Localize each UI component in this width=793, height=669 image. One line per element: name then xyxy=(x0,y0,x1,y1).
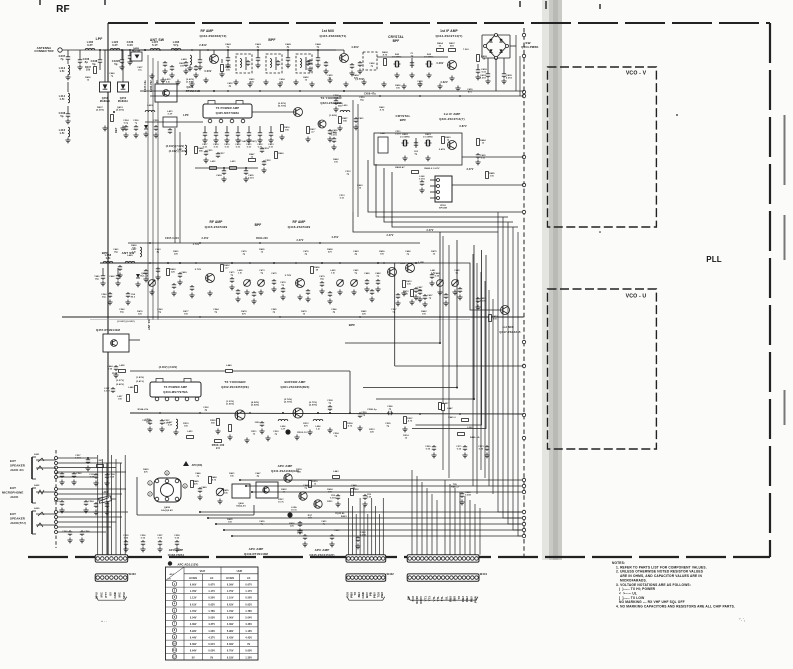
svg-text:MICROPHONE: MICROPHONE xyxy=(2,491,23,495)
svg-text:PB8: PB8 xyxy=(448,596,452,602)
filler label M23 xyxy=(421,310,427,315)
junction mid rail xyxy=(167,262,417,264)
svg-text:PTT: PTT xyxy=(104,592,108,598)
junction dot J13 xyxy=(195,262,197,264)
svg-text:0.5t: 0.5t xyxy=(166,80,170,83)
svg-text:220: 220 xyxy=(138,313,143,315)
svg-text:MIC: MIC xyxy=(118,592,122,597)
svg-text:330: 330 xyxy=(407,283,412,285)
svg-text:C445: C445 xyxy=(285,43,291,46)
svg-text:0.62V: 0.62V xyxy=(227,604,234,606)
page edge mark xyxy=(784,390,786,425)
svg-text:5B8: 5B8 xyxy=(453,596,457,602)
resistor R409 xyxy=(477,55,488,62)
supply rail mid xyxy=(128,242,420,244)
junction dot J22 xyxy=(159,412,161,414)
svg-text:0.43V: 0.43V xyxy=(227,636,234,639)
transistor Q412 xyxy=(182,43,219,64)
svg-text:4.39V: 4.39V xyxy=(227,623,234,626)
jack pads xyxy=(55,457,58,534)
svg-text:4.39V: 4.39V xyxy=(190,623,197,626)
label TX YOUNGER xyxy=(320,96,342,105)
svg-text:1k: 1k xyxy=(359,187,362,189)
junction xyxy=(227,49,229,51)
junction dot J14 xyxy=(249,262,251,264)
filler label M4 xyxy=(241,250,247,255)
inductor L406 xyxy=(85,40,95,50)
svg-text:5p: 5p xyxy=(393,311,396,313)
svg-text:1k: 1k xyxy=(251,156,254,158)
junction dot J6 xyxy=(259,90,261,92)
filler label T11 xyxy=(369,62,375,67)
filler label A10 xyxy=(289,522,295,527)
svg-text:C405: C405 xyxy=(506,74,512,77)
filler label T1 xyxy=(109,72,115,77)
junction dot J31 xyxy=(439,316,441,318)
svg-text:TX YOUNGER: TX YOUNGER xyxy=(224,380,246,384)
filler label M13 xyxy=(137,310,143,315)
capacitor C482 xyxy=(375,272,381,292)
junction xyxy=(329,412,331,414)
svg-text:PB2: PB2 xyxy=(465,596,469,602)
filler label A4 xyxy=(281,488,287,493)
capacitor C475 xyxy=(271,272,277,292)
wire to W403 pin 7 xyxy=(124,455,126,555)
bus vertical W401b 3 xyxy=(421,482,423,555)
resistor L448 xyxy=(128,386,137,393)
jack wire 5 xyxy=(58,476,98,478)
svg-text:VTL: VTL xyxy=(432,596,436,602)
pad on right border xyxy=(522,528,525,531)
resistor R416 xyxy=(279,125,290,140)
svg-text:C563: C563 xyxy=(54,501,60,503)
filler label T7 xyxy=(279,78,285,83)
svg-text:100: 100 xyxy=(184,425,189,427)
svg-text:10: 10 xyxy=(173,642,177,645)
tick mark xyxy=(519,1,521,7)
svg-text:C446: C446 xyxy=(315,43,321,46)
svg-text:0.06: 0.06 xyxy=(127,43,133,47)
svg-text:1.5t: 1.5t xyxy=(59,69,64,73)
svg-text:AFC AMP: AFC AMP xyxy=(169,548,184,552)
svg-text:57p: 57p xyxy=(174,43,179,47)
svg-text:1.30V: 1.30V xyxy=(245,657,252,659)
bus loop 1 xyxy=(368,160,522,212)
capacitor C540 xyxy=(101,292,112,305)
box Q407b xyxy=(256,482,285,503)
svg-text:100: 100 xyxy=(490,175,495,177)
svg-text:Q404-PMW1: Q404-PMW1 xyxy=(521,45,539,49)
label TX YOUNGER Q402 xyxy=(221,380,249,389)
ground xyxy=(394,73,399,78)
capacitor C436 xyxy=(127,40,134,65)
svg-text:220: 220 xyxy=(250,81,255,83)
svg-text:100: 100 xyxy=(380,253,385,255)
svg-text:R480-0 3.47V: R480-0 3.47V xyxy=(424,167,440,170)
junction dot J2 xyxy=(175,49,177,51)
svg-text:C409: C409 xyxy=(481,68,487,71)
svg-text:12: 12 xyxy=(173,656,177,659)
junction xyxy=(223,167,225,169)
svg-text:J402: J402 xyxy=(34,484,40,487)
filler label T19 xyxy=(395,131,401,135)
label TX POWER AMP box xyxy=(203,101,252,123)
svg-text:0.50V: 0.50V xyxy=(208,598,215,600)
inductor L434 xyxy=(278,419,288,430)
jack J401 xyxy=(32,453,44,479)
svg-text:C403: C403 xyxy=(480,74,486,77)
junction xyxy=(245,167,247,169)
svg-text:220: 220 xyxy=(362,313,367,315)
svg-text:TX POWER AMP: TX POWER AMP xyxy=(164,385,188,389)
junction xyxy=(99,49,101,51)
bus vertical W401b 4 xyxy=(426,488,428,555)
svg-text:560: 560 xyxy=(450,46,455,48)
svg-text:1st IF AMP: 1st IF AMP xyxy=(444,112,461,116)
svg-text:1.16V: 1.16V xyxy=(245,631,252,633)
svg-text:BPF: BPF xyxy=(400,118,406,122)
pad on right border xyxy=(522,364,525,367)
wire crystal rail xyxy=(377,56,448,58)
svg-text:0.00: 0.00 xyxy=(334,97,339,99)
capacitor C532 xyxy=(261,160,271,173)
svg-text:ADJ: ADJ xyxy=(170,573,174,576)
svg-text:1.06V: 1.06V xyxy=(208,631,215,633)
filler label A11 xyxy=(321,520,327,525)
filler label T9 xyxy=(327,74,333,79)
svg-text:8p: 8p xyxy=(415,153,418,155)
svg-text:2p: 2p xyxy=(347,173,350,175)
main rail mid xyxy=(100,262,420,264)
wire tx out xyxy=(252,111,293,113)
svg-text:5p: 5p xyxy=(159,311,162,313)
svg-text:VT1: VT1 xyxy=(423,596,427,602)
svg-text:L427: L427 xyxy=(177,148,183,151)
svg-text:R494-220: R494-220 xyxy=(256,237,268,240)
tick mark xyxy=(545,1,547,9)
svg-text:L408-V02: L408-V02 xyxy=(150,80,153,92)
svg-text:PU5P: PU5P xyxy=(112,373,118,375)
crystal X402 xyxy=(424,53,435,67)
svg-text:4.37V: 4.37V xyxy=(208,636,215,639)
resistor R487 xyxy=(337,117,348,131)
inductor L429 xyxy=(145,104,155,112)
svg-text:5p: 5p xyxy=(114,62,118,66)
svg-text:L502: L502 xyxy=(467,427,473,429)
pad on right border xyxy=(522,510,525,513)
svg-text:1.17V: 1.17V xyxy=(245,591,252,593)
svg-text:R441-0: R441-0 xyxy=(448,416,456,419)
bus vertical 5 xyxy=(518,232,522,536)
svg-text:(2.35V): (2.35V) xyxy=(96,110,104,112)
svg-text:0.00V: 0.00V xyxy=(208,651,215,653)
svg-text:2.78V: 2.78V xyxy=(195,269,202,271)
jack pad column (dashed) xyxy=(55,450,57,548)
svg-text:180: 180 xyxy=(343,120,348,122)
capacitor C130 xyxy=(89,473,98,486)
junction xyxy=(317,412,319,414)
svg-text:0.001: 0.001 xyxy=(506,78,513,80)
svg-text:(1.83V): (1.83V) xyxy=(136,377,144,379)
bus vertical sw2 xyxy=(519,56,521,96)
bus vertical W401 3 xyxy=(472,254,474,486)
svg-text:SPEAKER: SPEAKER xyxy=(10,464,26,468)
wire to W403 pin 6 xyxy=(120,463,122,555)
svg-text:HL3 08: HL3 08 xyxy=(132,51,141,53)
svg-text:W403: W403 xyxy=(129,572,137,576)
filler ground G5 xyxy=(233,80,238,85)
component cluster below ANT SW xyxy=(96,106,126,131)
svg-text:2.84V: 2.84V xyxy=(199,43,207,47)
label AFC AMP Q438 xyxy=(168,548,185,557)
junction dot J8 xyxy=(339,95,341,97)
svg-text:0.001: 0.001 xyxy=(248,177,254,179)
svg-text:0.00: 0.00 xyxy=(479,448,484,450)
svg-text:100: 100 xyxy=(297,471,302,473)
capacitor under TXamp 4 xyxy=(235,126,241,148)
svg-text:5V: 5V xyxy=(192,657,195,659)
svg-text:220: 220 xyxy=(171,271,176,273)
svg-text:1k: 1k xyxy=(261,251,264,253)
pad on right border xyxy=(522,94,525,97)
svg-text:X42: X42 xyxy=(427,53,432,56)
svg-text:GG(2)2.4V: GG(2)2.4V xyxy=(161,509,173,512)
pad on right border xyxy=(522,478,525,481)
svg-text:Q45B: Q45B xyxy=(133,47,140,50)
capacitor C529 xyxy=(459,492,471,505)
svg-text:0.001: 0.001 xyxy=(480,78,487,80)
crystal X422 xyxy=(423,133,434,146)
svg-text:Q403-MS7797MA: Q403-MS7797MA xyxy=(163,390,188,394)
wire to W403 pin 2 xyxy=(101,459,103,555)
svg-text:Q402-2SC3357(RE): Q402-2SC3357(RE) xyxy=(221,385,249,389)
transistor Q445t xyxy=(299,492,307,500)
resistor L447 xyxy=(442,404,454,411)
svg-text:HI M/G: HI M/G xyxy=(226,578,234,580)
jack wire 6 xyxy=(58,488,127,490)
variable resistor R437 xyxy=(85,66,96,74)
jack wire 8 xyxy=(58,498,117,500)
svg-text:1k: 1k xyxy=(433,253,436,255)
VCO-U box xyxy=(548,289,657,449)
stray dot xyxy=(676,114,678,116)
svg-text:1.5t: 1.5t xyxy=(132,250,136,253)
svg-text:3.3T: 3.3T xyxy=(168,424,173,426)
svg-text:EXT: EXT xyxy=(10,486,16,490)
svg-text:L433: L433 xyxy=(187,430,193,433)
svg-text:0.01: 0.01 xyxy=(340,197,345,199)
svg-text:0.62V: 0.62V xyxy=(208,604,215,606)
svg-text:18p: 18p xyxy=(95,278,100,280)
label caps cluster xyxy=(123,535,180,552)
filler label T12 xyxy=(395,84,401,89)
filler label M10 xyxy=(405,250,411,255)
svg-text:0.39V: 0.39V xyxy=(227,644,234,646)
elbow wire 1 xyxy=(345,232,440,343)
junction dot J18 xyxy=(149,242,151,244)
svg-text:DET: DET xyxy=(114,127,118,133)
resistor R404 xyxy=(437,42,444,51)
crystal X421 xyxy=(400,133,411,146)
svg-text:2.78V: 2.78V xyxy=(285,275,292,277)
capacitor under TXamp 3 xyxy=(224,126,230,148)
junction xyxy=(439,342,441,344)
bus loop 2 xyxy=(376,164,508,217)
filler ground G16 xyxy=(417,82,422,87)
filler capacitor T1 xyxy=(169,65,174,78)
resistor R438 xyxy=(219,59,231,77)
svg-text:0.091: 0.091 xyxy=(419,178,425,180)
inductor L415 xyxy=(59,127,71,143)
svg-text:47u: 47u xyxy=(468,90,473,93)
svg-text:4p: 4p xyxy=(287,46,290,49)
RF block border left xyxy=(107,23,109,557)
svg-text:Q408: Q408 xyxy=(164,506,171,509)
transistor Q442t xyxy=(314,500,334,508)
svg-text:X422: X422 xyxy=(402,133,408,136)
capacitor C517 xyxy=(216,152,226,158)
svg-text:5p: 5p xyxy=(92,62,96,66)
svg-text:VCO - V: VCO - V xyxy=(626,71,647,77)
wire xyxy=(157,61,159,320)
filler label M3 xyxy=(173,250,179,255)
trimmer mid4 xyxy=(351,269,360,295)
svg-text:LPF: LPF xyxy=(183,113,189,117)
svg-text:100: 100 xyxy=(184,313,189,315)
capacitor under TXamp 2 xyxy=(213,126,219,148)
svg-text:Q415-2SK302(T1): Q415-2SK302(T1) xyxy=(320,34,347,38)
filler label X1 xyxy=(183,423,189,427)
junction xyxy=(317,49,319,51)
inductor L437 xyxy=(131,247,141,257)
svg-text:1.10V: 1.10V xyxy=(227,598,234,600)
wire xyxy=(152,58,154,320)
capacitor C550 xyxy=(297,530,307,547)
wire top rail2 xyxy=(351,56,353,58)
transistor Q415m xyxy=(195,269,215,283)
wire to W402 pin 2 xyxy=(351,506,353,555)
label CRYSTAL BPF xyxy=(388,35,404,43)
pad on right border xyxy=(522,340,525,343)
svg-text:GND: GND xyxy=(113,592,117,598)
svg-text:7p: 7p xyxy=(135,122,138,124)
RF block border top (dashed) xyxy=(108,22,770,24)
svg-text:0.001: 0.001 xyxy=(330,497,336,499)
inductor L500 xyxy=(97,460,104,467)
junction dot J11 xyxy=(459,95,461,97)
svg-text:TX YOUNGER: TX YOUNGER xyxy=(320,96,342,100)
svg-text:0.001: 0.001 xyxy=(297,532,303,534)
long wire D3 xyxy=(251,491,522,493)
svg-text:3.87V: 3.87V xyxy=(459,124,467,128)
filler label T22 xyxy=(357,184,363,189)
svg-text:0.01: 0.01 xyxy=(269,146,274,148)
svg-text:R480-47: R480-47 xyxy=(395,166,405,169)
bus vertical 3 xyxy=(508,222,522,524)
jack wire 7 xyxy=(58,493,123,495)
inductor L468 xyxy=(103,253,113,263)
svg-text:4.45V: 4.45V xyxy=(332,236,339,239)
capacitor C449 xyxy=(197,486,207,500)
svg-text:0.00: 0.00 xyxy=(108,368,113,370)
capacitor C59 xyxy=(330,494,340,507)
capacitor C573 xyxy=(478,445,489,458)
transistor Q415 xyxy=(336,45,359,63)
capacitor C557j xyxy=(75,455,90,471)
jack wire 13 xyxy=(58,531,107,533)
svg-text:R440--UL: R440--UL xyxy=(470,436,481,439)
svg-text:100: 100 xyxy=(180,65,185,67)
svg-text:3p: 3p xyxy=(389,408,392,410)
svg-text:APC(D3): APC(D3) xyxy=(192,464,203,467)
filler label M16 xyxy=(213,308,219,313)
svg-text:C528: C528 xyxy=(153,120,159,122)
svg-text:0.5p: 0.5p xyxy=(124,122,129,124)
capacitor C508a xyxy=(333,95,339,112)
capacitor C430 xyxy=(327,129,338,142)
svg-text:1st IF AMP: 1st IF AMP xyxy=(440,29,458,33)
svg-text:L433: L433 xyxy=(230,160,236,163)
svg-text:1k: 1k xyxy=(483,59,486,61)
svg-text:5C8: 5C8 xyxy=(411,596,415,602)
dashed box at mixer xyxy=(363,52,377,70)
svg-text:68k: 68k xyxy=(199,150,204,152)
junction dot J10 xyxy=(419,95,421,97)
junction dot J5 xyxy=(227,90,229,92)
svg-text:1.12V: 1.12V xyxy=(190,598,197,600)
svg-text:(1.03V): (1.03V) xyxy=(186,82,194,84)
svg-text:39p: 39p xyxy=(120,311,125,313)
svg-text:JACK(T/U): JACK(T/U) xyxy=(10,521,26,525)
filler label M19 xyxy=(301,310,307,315)
wire to W402 pin 7 xyxy=(371,498,373,555)
svg-text:1k: 1k xyxy=(253,433,256,435)
diode Q456 xyxy=(131,47,142,61)
filler label M21 xyxy=(361,310,367,315)
svg-text:PLL: PLL xyxy=(706,255,722,264)
filler label X0 xyxy=(145,419,151,423)
svg-text:100: 100 xyxy=(228,521,233,523)
svg-text:4.7k: 4.7k xyxy=(383,54,388,57)
filler label T4 xyxy=(179,62,185,67)
capacitor C99 xyxy=(362,494,372,507)
svg-text:PB8: PB8 xyxy=(380,592,384,598)
trimmer mid6 xyxy=(452,269,461,295)
svg-text:TO8: TO8 xyxy=(346,592,350,598)
svg-text:C565: C565 xyxy=(62,531,68,533)
wire jack stub 3 xyxy=(36,491,56,493)
svg-text:4p: 4p xyxy=(257,46,260,49)
svg-text:C443: C443 xyxy=(255,43,261,46)
svg-text:4.7k: 4.7k xyxy=(408,419,413,422)
BPF filter section 1 xyxy=(236,54,252,73)
svg-text:Q425-MS77908A: Q425-MS77908A xyxy=(216,111,240,115)
W403 pin labels xyxy=(95,592,126,599)
svg-text:RF AMP: RF AMP xyxy=(293,220,307,224)
svg-text:SP/U: SP/U xyxy=(95,592,99,599)
connector W401 xyxy=(407,555,487,600)
RF block border bottom (dashed) xyxy=(28,556,770,558)
bus vertical sw1 xyxy=(515,35,517,91)
svg-text:R441-2: R441-2 xyxy=(451,485,459,488)
bus vertical 2 xyxy=(503,217,522,518)
filler label M0 xyxy=(113,248,119,253)
svg-text:0.62V: 0.62V xyxy=(245,604,252,606)
svg-text:0.67V: 0.67V xyxy=(208,584,215,586)
filler label X5 xyxy=(303,423,309,427)
svg-text:1.79V: 1.79V xyxy=(227,611,234,613)
svg-text:JACK 3/1: JACK 3/1 xyxy=(10,468,24,472)
